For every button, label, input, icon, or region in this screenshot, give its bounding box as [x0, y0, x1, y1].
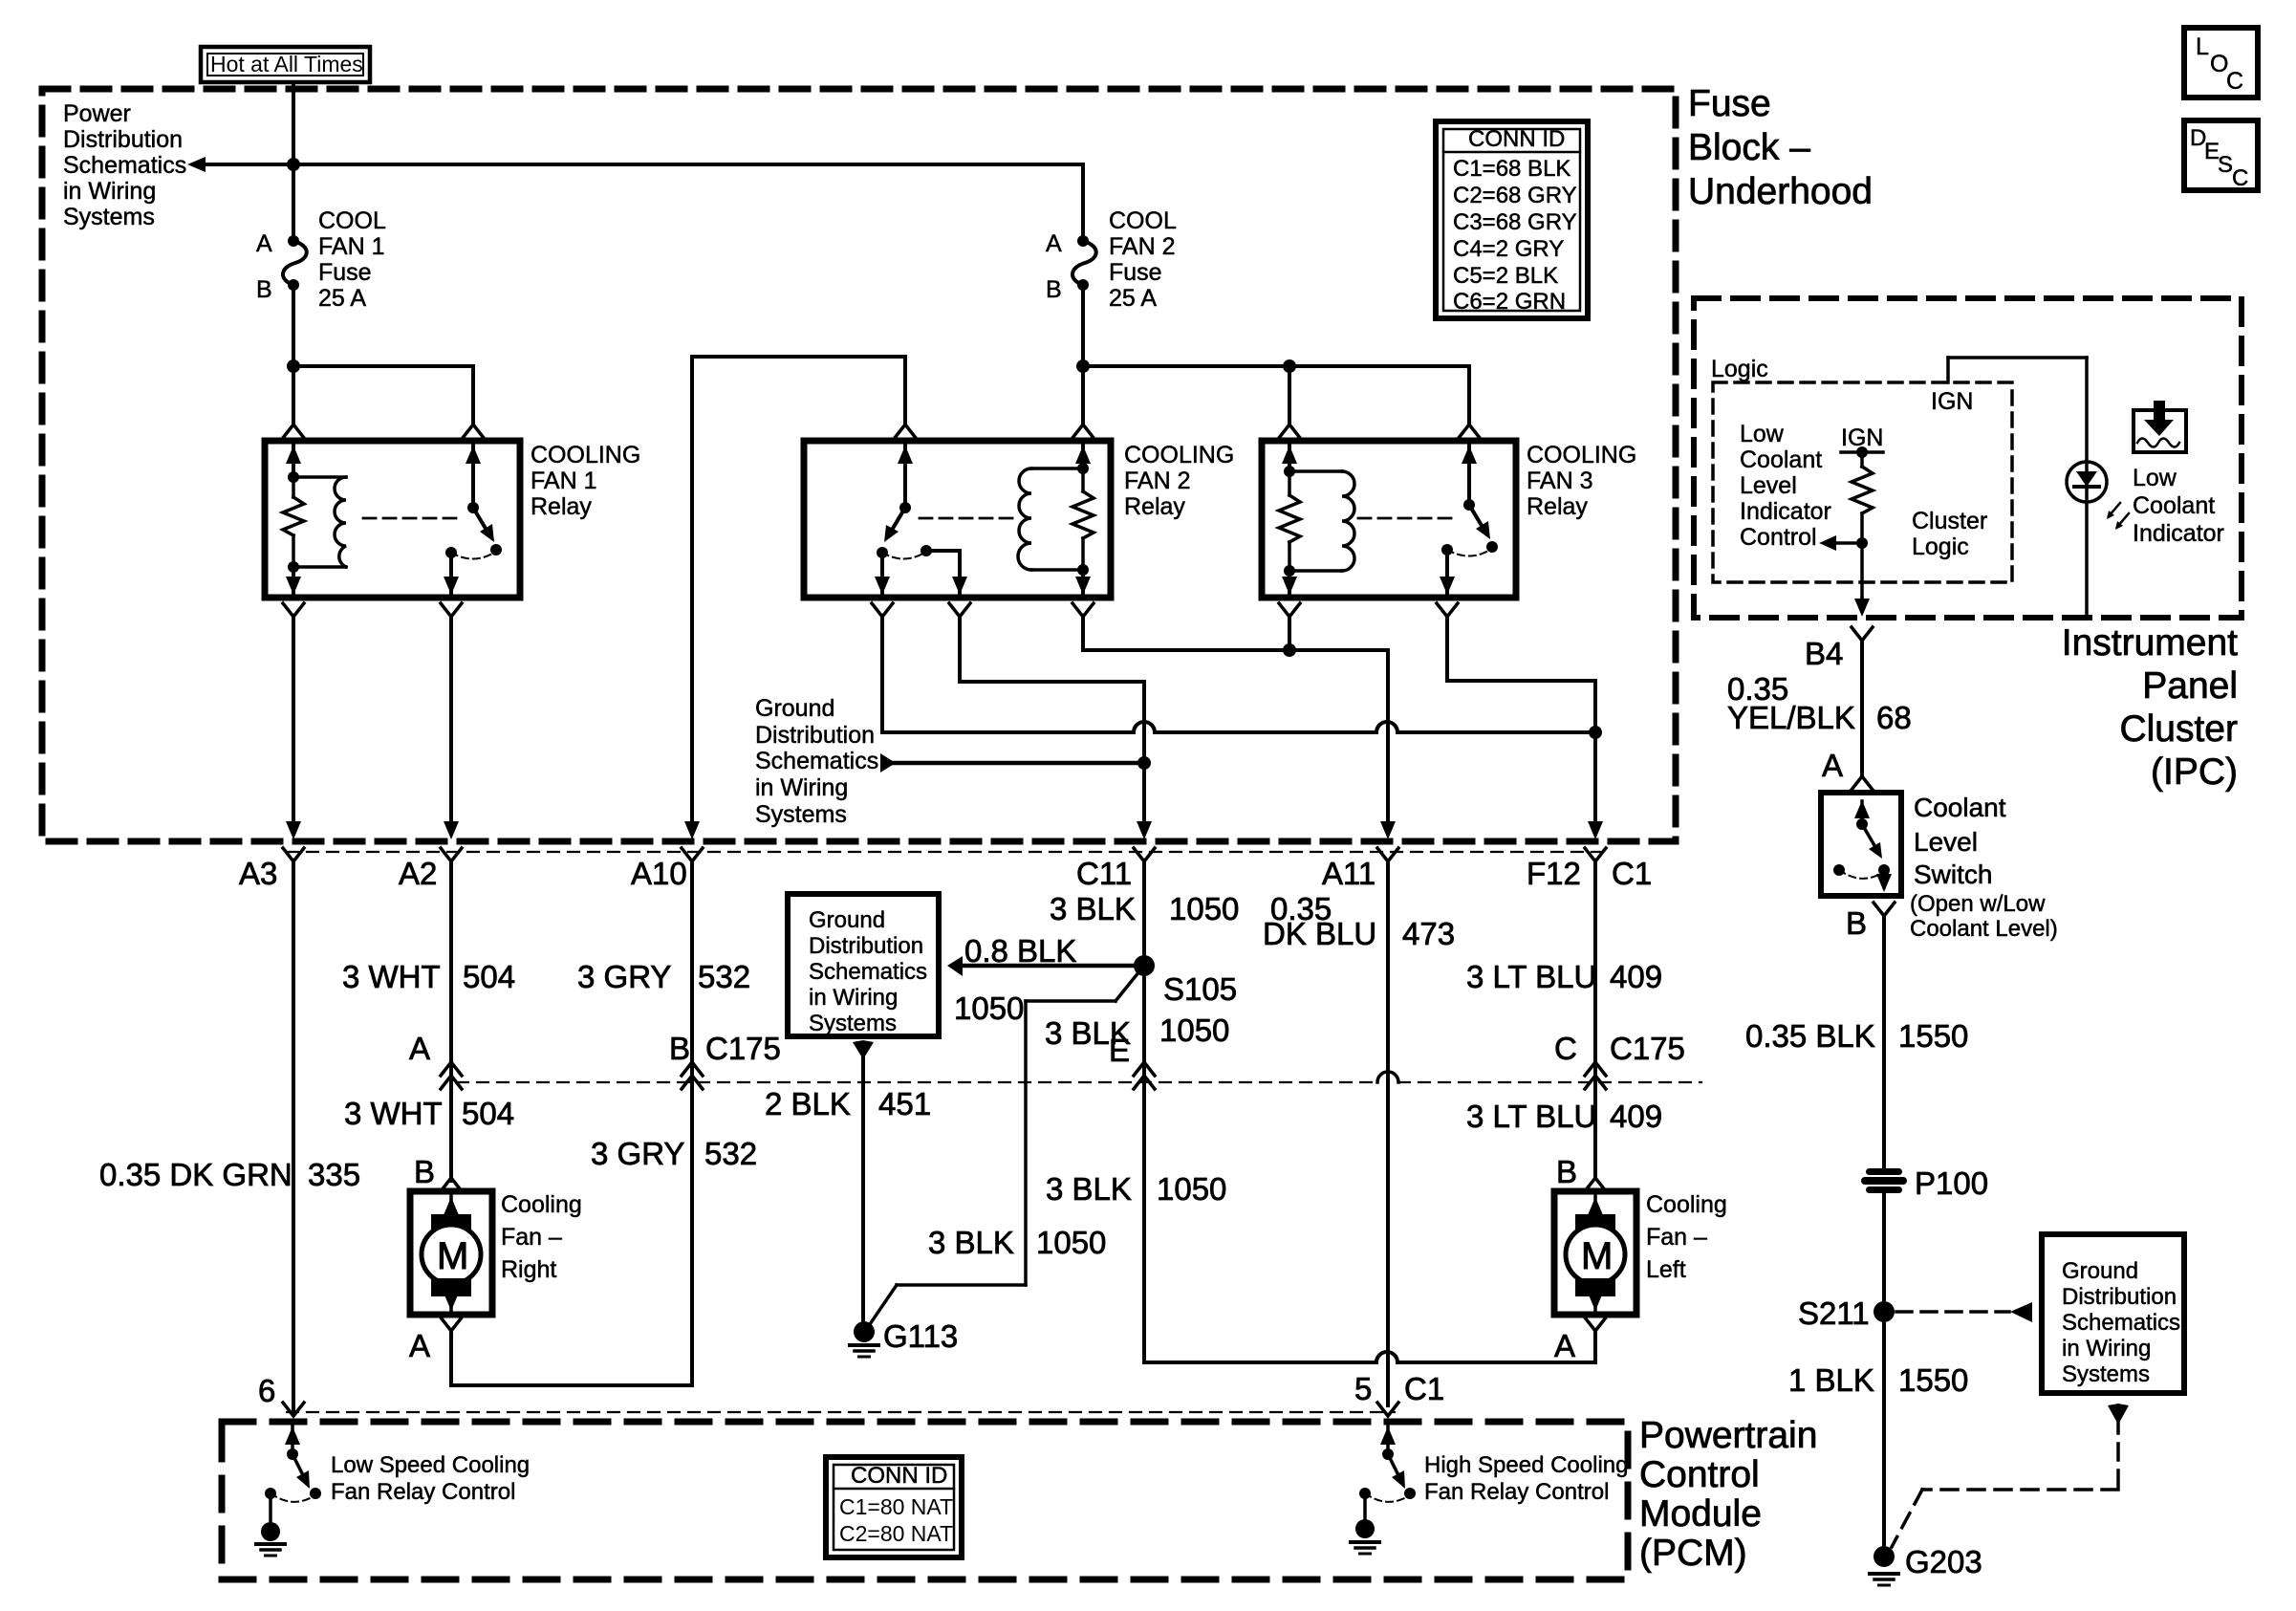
svg-text:(IPC): (IPC) [2151, 751, 2238, 793]
label 3 GRY 532 upper [577, 959, 750, 994]
svg-text:L: L [2196, 33, 2209, 60]
label Cooling Fan Left [1646, 1191, 1727, 1283]
wire branch fuse1 to relay1 switch pin [293, 366, 473, 425]
svg-text:3 GRY: 3 GRY [577, 959, 671, 994]
svg-text:504: 504 [462, 1096, 514, 1131]
svg-text:B: B [1556, 1154, 1577, 1189]
wire 3 BLK 1050 below C175 to fan left return [1144, 1082, 1593, 1362]
wire fuse2 B down to relay2 coil pin [1076, 285, 1090, 425]
label 0.35 DK BLU 473 [1263, 891, 1455, 951]
LOC box [2184, 28, 2258, 98]
label pin A at fan left [1554, 1328, 1575, 1363]
resistor cluster pull-up [1852, 452, 1873, 543]
DESC box [2184, 120, 2258, 191]
label COOLING FAN 1 Relay [531, 442, 640, 520]
label 0.35 DK GRN 335 [99, 1157, 360, 1192]
svg-text:Fuse: Fuse [1109, 259, 1162, 286]
svg-text:Left: Left [1646, 1256, 1686, 1283]
svg-text:1050: 1050 [1159, 1012, 1229, 1048]
svg-text:C6=2 GRN: C6=2 GRN [1453, 289, 1566, 315]
svg-text:F12: F12 [1527, 856, 1581, 891]
wire S105 to C175 E [1134, 966, 1155, 1089]
wire relay2 contact2 to C11 [960, 617, 1152, 839]
svg-text:3 BLK: 3 BLK [1046, 1171, 1132, 1207]
svg-text:1550: 1550 [1898, 1018, 1968, 1054]
svg-text:FAN 1: FAN 1 [531, 468, 596, 494]
svg-text:C1: C1 [1612, 856, 1652, 891]
svg-text:Distribution: Distribution [63, 126, 183, 153]
wire A10 3 GRY 532 down to fan right return [682, 861, 703, 1385]
label Cooling Fan Right [501, 1191, 582, 1283]
svg-text:A: A [256, 230, 272, 257]
label fuse2 pin B [1046, 276, 1062, 303]
relay1 resistor [283, 471, 304, 573]
connector line PCM top [287, 1411, 1395, 1413]
svg-text:YEL/BLK: YEL/BLK [1727, 700, 1855, 735]
svg-text:CONN ID: CONN ID [1468, 126, 1565, 152]
svg-text:in Wiring: in Wiring [63, 178, 156, 205]
wire logic box to indicator LED [1948, 358, 2087, 616]
wire dashed ground reference to G203 [1892, 1404, 2129, 1547]
svg-text:1050: 1050 [954, 991, 1024, 1026]
relay1 coil [293, 477, 346, 567]
svg-text:Power: Power [63, 100, 131, 127]
svg-text:451: 451 [878, 1086, 931, 1121]
svg-text:Relay: Relay [1124, 493, 1185, 520]
connector line C175 [457, 1081, 1701, 1083]
svg-text:C1=80 NAT: C1=80 NAT [839, 1494, 953, 1519]
relay1 coil return arrow to A3 [286, 567, 301, 595]
label Powertrain Control Module PCM [1639, 1415, 1817, 1574]
svg-text:Schematics: Schematics [2062, 1310, 2180, 1336]
svg-text:Level: Level [1914, 827, 1978, 857]
CONN ID table underhood [1436, 121, 1588, 318]
svg-text:Control: Control [1639, 1454, 1760, 1495]
relay1 coil pin entry arrow [286, 445, 301, 477]
wire relay2 and relay3 coils to A11 [1083, 617, 1396, 839]
svg-text:B: B [414, 1154, 435, 1189]
svg-text:Switch: Switch [1914, 860, 1992, 889]
svg-text:A: A [1554, 1328, 1575, 1363]
svg-text:Level: Level [1740, 472, 1797, 499]
relay1 switch output arrow to A2 [444, 557, 459, 595]
svg-text:Schematics: Schematics [809, 959, 927, 985]
label 3 LT BLU 409 upper [1466, 959, 1662, 994]
svg-text:Fan –: Fan – [1646, 1224, 1707, 1251]
svg-text:C: C [1554, 1031, 1577, 1066]
svg-text:Coolant: Coolant [1740, 446, 1822, 473]
fuse F1 COOL FAN 1 [283, 235, 307, 291]
svg-text:3 LT BLU: 3 LT BLU [1466, 1099, 1596, 1134]
node splice S105 [1134, 955, 1237, 1007]
relay2 coil [1018, 445, 1091, 576]
label Low Coolant Indicator [2133, 465, 2224, 547]
wire power distribution feed with left arrow [187, 157, 1083, 172]
wire ground distribution schematics branch [880, 753, 1144, 773]
label B4 [1805, 627, 1873, 671]
svg-text:M: M [1581, 1235, 1613, 1277]
svg-text:Fuse: Fuse [1688, 83, 1771, 124]
label IGN inner [1841, 425, 1883, 451]
svg-text:Block –: Block – [1688, 127, 1810, 168]
label 3 LT BLU 409 lower [1466, 1099, 1662, 1134]
node junction fuse1 feed [287, 158, 300, 171]
svg-text:1050: 1050 [1169, 891, 1239, 926]
relay K3 COOLING FAN 3 box [1262, 441, 1516, 598]
label 0.35 BLK 1550 [1745, 1018, 1968, 1054]
label pin B at coolant switch [1846, 903, 1895, 941]
svg-text:Systems: Systems [809, 1011, 897, 1036]
svg-text:Powertrain: Powertrain [1639, 1415, 1817, 1456]
svg-text:C175: C175 [705, 1031, 781, 1066]
svg-text:C: C [2226, 68, 2243, 95]
label Coolant Level Switch [1914, 793, 2006, 889]
svg-text:1 BLK: 1 BLK [1788, 1362, 1874, 1398]
svg-text:Coolant: Coolant [2133, 492, 2215, 519]
PCM dashed box [222, 1422, 1628, 1579]
label 3 BLK 1050 on G113 branch [928, 1225, 1106, 1260]
wire branch fuse2 to relay3 pins [1083, 359, 1469, 425]
svg-text:409: 409 [1610, 959, 1662, 994]
svg-text:Coolant Level): Coolant Level) [1910, 916, 2058, 942]
label COOLING FAN 3 Relay [1527, 442, 1636, 520]
svg-text:Distribution: Distribution [809, 933, 923, 959]
label High Speed Cooling Fan Relay Control [1424, 1452, 1628, 1505]
svg-text:High Speed Cooling: High Speed Cooling [1424, 1452, 1628, 1478]
svg-text:A: A [409, 1328, 430, 1363]
label 2 BLK 451 [765, 1086, 931, 1121]
connector line fuse block bottom [287, 851, 1602, 853]
svg-text:A: A [1046, 230, 1062, 257]
svg-text:(Open w/Low: (Open w/Low [1910, 891, 2046, 917]
svg-text:1050: 1050 [1157, 1171, 1226, 1207]
svg-text:A3: A3 [239, 856, 277, 891]
svg-text:Systems: Systems [755, 801, 847, 828]
svg-text:Ground: Ground [2062, 1258, 2138, 1284]
wire relay3 switch to F12 [1447, 617, 1603, 839]
label 0.35 YEL BLK 68 [1727, 671, 1912, 735]
label COOL FAN 2 Fuse 25 A [1109, 207, 1177, 312]
label pin A at fan right [409, 1328, 430, 1363]
wire S105 branch to G113 [868, 971, 1139, 1327]
svg-text:504: 504 [463, 959, 515, 994]
svg-text:A: A [409, 1031, 430, 1066]
label IGN top [1931, 388, 1973, 415]
svg-text:C11: C11 [1076, 856, 1132, 891]
relay2 switch left contact arrow down [875, 557, 890, 595]
svg-text:Fan –: Fan – [501, 1224, 562, 1251]
svg-text:Systems: Systems [2062, 1361, 2150, 1387]
IPC dashed box [1694, 298, 2242, 618]
svg-text:C175: C175 [1610, 1031, 1685, 1066]
wire 2 BLK 451 box to G113 [853, 1040, 874, 1323]
svg-text:C3=68 GRY: C3=68 GRY [1453, 209, 1577, 235]
relay2 dashed actuator link [920, 517, 1017, 520]
label pin A at coolant switch [1822, 748, 1843, 783]
svg-text:Distribution: Distribution [755, 722, 875, 749]
svg-text:E: E [1109, 1033, 1130, 1068]
svg-text:CONN ID: CONN ID [851, 1463, 947, 1489]
svg-text:Underhood: Underhood [1688, 171, 1873, 212]
svg-text:in Wiring: in Wiring [2062, 1336, 2151, 1361]
label Cluster Logic [1912, 508, 1987, 560]
motor M1 Cooling Fan Right [410, 1191, 492, 1315]
svg-text:Schematics: Schematics [755, 748, 878, 774]
fuse block underhood dashed box [42, 89, 1676, 841]
svg-text:COOLING: COOLING [531, 442, 640, 468]
svg-text:335: 335 [308, 1157, 360, 1192]
svg-text:A: A [1822, 748, 1843, 783]
ground G113 [850, 1318, 958, 1357]
svg-text:B4: B4 [1805, 636, 1843, 671]
svg-text:C1: C1 [1404, 1371, 1444, 1406]
label COOL FAN 1 Fuse 25 A [318, 207, 386, 312]
relay K2 COOLING FAN 2 box [804, 441, 1111, 598]
node S ground distribution junction [1137, 756, 1151, 770]
svg-text:IGN: IGN [1931, 388, 1973, 415]
svg-text:B: B [256, 276, 272, 303]
label pin 6 [258, 1373, 275, 1408]
svg-text:532: 532 [698, 959, 750, 994]
CONN ID table PCM [826, 1457, 962, 1557]
svg-text:Fan Relay Control: Fan Relay Control [331, 1479, 515, 1505]
svg-text:A2: A2 [399, 856, 437, 891]
label Logic [1711, 356, 1768, 382]
label pin E [1109, 1033, 1130, 1068]
svg-text:B: B [1046, 276, 1062, 303]
svg-text:Ground: Ground [755, 695, 834, 722]
relay3 switch [1441, 445, 1498, 556]
relay2 switch right contact jog down [926, 551, 967, 595]
label COOLING FAN 2 Relay [1124, 442, 1234, 520]
LED low coolant indicator [2067, 462, 2129, 530]
svg-text:COOL: COOL [1109, 207, 1177, 234]
relay3 coil [1289, 471, 1354, 571]
svg-text:C2=80 NAT: C2=80 NAT [839, 1521, 953, 1546]
svg-text:3 GRY: 3 GRY [591, 1136, 684, 1171]
svg-text:A11: A11 [1322, 856, 1375, 891]
wire 3 WHT 504 to cooling fan right B [441, 1082, 462, 1191]
svg-text:409: 409 [1610, 1099, 1662, 1134]
wire A2 3 WHT 504 to C175 A [441, 861, 462, 1089]
svg-text:Low Speed Cooling: Low Speed Cooling [331, 1452, 530, 1478]
svg-text:25 A: 25 A [318, 285, 366, 312]
svg-text:C4=2 GRY: C4=2 GRY [1453, 236, 1564, 262]
wire A11 0.35 DK BLU 473 to PCM pin 5 [1377, 861, 1398, 1416]
PCM low speed switch [256, 1426, 321, 1556]
grommet P100 [1861, 1165, 1988, 1201]
svg-text:Control: Control [1740, 524, 1817, 551]
connector chevrons above relay3 [1279, 425, 1480, 438]
label pin B at fan right [414, 1154, 435, 1189]
svg-text:Logic: Logic [1711, 356, 1768, 382]
label fuse1 pin B [256, 276, 272, 303]
wire F12 3 LT BLU 409 to fan left B [1585, 861, 1606, 1191]
svg-text:6: 6 [258, 1373, 275, 1408]
svg-text:2 BLK: 2 BLK [765, 1086, 851, 1121]
wire 0.35 BLK 1550 to P100 [1882, 916, 1886, 1168]
svg-text:B: B [669, 1031, 690, 1066]
label conn C175 right [1610, 1031, 1685, 1066]
Hot at All Times box [201, 47, 370, 82]
svg-text:COOLING: COOLING [1124, 442, 1234, 468]
svg-text:S211: S211 [1798, 1295, 1870, 1331]
node splice S211 [1798, 1295, 1895, 1331]
svg-text:Right: Right [501, 1256, 556, 1283]
wire relay1 switch to A2 border [444, 617, 459, 839]
label Ground Distribution Schematics in Wiring Systems (mid) [755, 695, 878, 828]
coolant level switch box [1821, 793, 1901, 896]
wire C11 3 BLK 1050 to S105 [1142, 861, 1146, 966]
ground distribution schematics box mid [788, 894, 939, 1036]
connector chevrons above relay1 [283, 425, 484, 438]
svg-text:Fuse: Fuse [318, 259, 372, 286]
label 1 BLK 1550 [1788, 1362, 1968, 1398]
svg-text:(PCM): (PCM) [1639, 1533, 1747, 1574]
relay2 resistor [1072, 468, 1094, 570]
relay3 coil return arrow down [1282, 571, 1297, 595]
relay3 switch output arrow down [1440, 555, 1455, 595]
label Open w Low Coolant Level [1910, 891, 2058, 942]
svg-text:Instrument: Instrument [2062, 622, 2238, 664]
svg-text:0.35 BLK: 0.35 BLK [1745, 1018, 1875, 1054]
svg-text:DK BLU: DK BLU [1263, 916, 1376, 951]
svg-text:Low: Low [2133, 465, 2177, 491]
node IGN tap [1841, 446, 1883, 458]
label pin C11 [1076, 856, 1132, 891]
label pin B at fan left [1556, 1154, 1577, 1189]
wire A10 border arrow [684, 821, 700, 839]
svg-text:Logic: Logic [1912, 533, 1969, 560]
svg-text:C: C [2232, 165, 2248, 191]
label 3 BLK 1050 below C175 [1046, 1171, 1226, 1207]
svg-text:Systems: Systems [63, 204, 155, 230]
svg-text:Indicator: Indicator [1740, 498, 1831, 525]
svg-text:Fan Relay Control: Fan Relay Control [1424, 1479, 1609, 1505]
wire 0.35 YEL BLK 68 to coolant switch [1852, 641, 1873, 790]
relay1 dashed actuator link [363, 517, 462, 520]
label pin A at C175 [409, 1031, 430, 1066]
svg-text:3 WHT: 3 WHT [344, 1096, 443, 1131]
svg-text:3 BLK: 3 BLK [928, 1225, 1014, 1260]
wire relay2 contact to F12 bus [882, 617, 1595, 732]
svg-text:Relay: Relay [1527, 493, 1588, 520]
relay3 resistor [1279, 445, 1300, 577]
svg-text:3 BLK: 3 BLK [1050, 891, 1136, 926]
label fuse1 pin A [256, 230, 272, 257]
svg-text:Cooling: Cooling [1646, 1191, 1727, 1218]
svg-text:FAN 3: FAN 3 [1527, 468, 1592, 494]
svg-text:G203: G203 [1905, 1544, 1982, 1579]
label Low Coolant Level Indicator Control [1740, 421, 1831, 551]
svg-text:532: 532 [704, 1136, 757, 1171]
svg-text:Coolant: Coolant [1914, 793, 2006, 822]
svg-text:FAN 2: FAN 2 [1109, 233, 1175, 260]
svg-text:FAN 2: FAN 2 [1124, 468, 1190, 494]
label Low Speed Cooling Fan Relay Control [331, 1452, 530, 1505]
svg-text:Indicator: Indicator [2133, 520, 2224, 547]
svg-text:COOLING: COOLING [1527, 442, 1636, 468]
label fuse2 pin A [1046, 230, 1062, 257]
label Instrument Panel Cluster IPC [2062, 622, 2238, 793]
svg-text:S105: S105 [1163, 971, 1237, 1007]
connector chevrons below relay1 [283, 603, 462, 617]
relay1 switch [445, 445, 502, 559]
wire hot feed corner to fuse 2 [1081, 164, 1085, 236]
svg-text:G113: G113 [883, 1318, 958, 1354]
label conn C175 left [705, 1031, 781, 1066]
relay2 switch [877, 445, 932, 559]
logic dashed box [1713, 382, 2012, 582]
svg-text:S: S [2218, 152, 2233, 178]
ground G203 [1870, 1544, 1982, 1585]
label pin 5 [1354, 1371, 1372, 1406]
svg-text:in Wiring: in Wiring [809, 985, 898, 1011]
wire fuse1 B down to relay1 [287, 285, 300, 425]
svg-text:25 A: 25 A [1109, 285, 1157, 312]
svg-text:Cluster: Cluster [1912, 508, 1987, 534]
label pin B at C175 [669, 1031, 690, 1066]
svg-text:5: 5 [1354, 1371, 1372, 1406]
svg-text:Low: Low [1740, 421, 1785, 447]
svg-text:Ground: Ground [809, 907, 885, 933]
svg-text:Module: Module [1639, 1493, 1762, 1535]
connector chevrons below relay2 [872, 603, 1094, 617]
label pin A2 [399, 856, 437, 891]
icon low coolant symbol [2134, 401, 2186, 452]
relay2 coil return arrow down [1075, 570, 1091, 595]
label 3 WHT 504 lower [344, 1096, 514, 1131]
svg-text:3 LT BLU: 3 LT BLU [1466, 959, 1596, 994]
wire A10 riser to relay2 switch pin [692, 357, 905, 824]
svg-text:FAN 1: FAN 1 [318, 233, 384, 260]
label pin A11 [1322, 856, 1375, 891]
svg-text:C1=68 BLK: C1=68 BLK [1453, 156, 1570, 182]
svg-text:in Wiring: in Wiring [755, 774, 848, 801]
wire fan right A return to A10 riser [441, 1317, 692, 1385]
svg-text:A10: A10 [631, 856, 687, 891]
PCM high speed switch [1351, 1426, 1416, 1554]
svg-text:Schematics: Schematics [63, 152, 186, 179]
svg-text:3 WHT: 3 WHT [342, 959, 441, 994]
label 3 WHT 504 upper [342, 959, 515, 994]
relay3 dashed actuator link [1358, 517, 1457, 520]
wire dashed S211 reference [1896, 1302, 2032, 1322]
label conn C1 [1612, 856, 1652, 891]
svg-text:0.8 BLK: 0.8 BLK [964, 933, 1076, 969]
svg-text:M: M [437, 1235, 468, 1277]
label 3 GRY 532 lower [591, 1136, 757, 1171]
label 3 BLK 1050 at C11 [1050, 891, 1239, 926]
label Fuse Block Underhood [1688, 83, 1873, 212]
connector chevrons above relay2 [895, 425, 1094, 438]
svg-text:Hot at All Times: Hot at All Times [210, 52, 363, 76]
wire A3 0.35 DK GRN 335 to PCM pin 6 [283, 861, 304, 1416]
ground distribution schematics box right [2042, 1234, 2184, 1393]
wire relay1 coil return to A3 border [286, 617, 301, 839]
wire cluster output to B4 [1854, 543, 1870, 617]
label 3 BLK 1050 at E [1045, 1012, 1229, 1051]
label pin A3 [239, 856, 277, 891]
svg-text:1550: 1550 [1898, 1362, 1968, 1398]
svg-text:473: 473 [1402, 916, 1455, 951]
svg-text:P100: P100 [1915, 1165, 1988, 1201]
svg-text:1050: 1050 [1036, 1225, 1106, 1260]
wire hot feed to fuse 1 [292, 82, 295, 236]
svg-text:B: B [1846, 905, 1867, 941]
wire 0.8 BLK 1050 to ground distribution box [947, 956, 1136, 976]
label pin A10 [631, 856, 687, 891]
